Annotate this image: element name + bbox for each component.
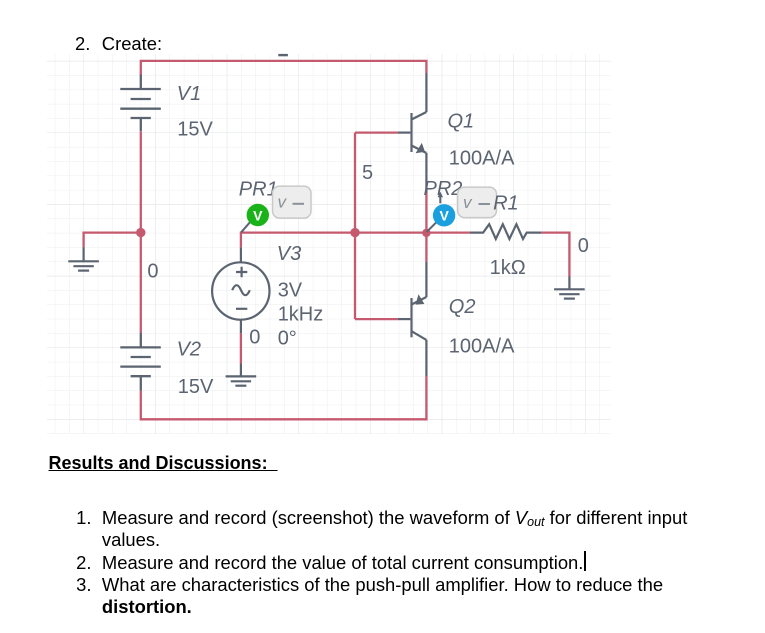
svg-text:V: V (440, 207, 450, 223)
junction node 5 on mid rail (350, 228, 359, 237)
battery V2 (120, 333, 161, 391)
wire: left ground stub (84, 233, 141, 248)
svg-text:Q2: Q2 (449, 296, 476, 318)
junction node at V1/V2/ground (136, 228, 145, 237)
transistor Q1 (398, 73, 427, 193)
wire: node to R1 left (426, 231, 470, 233)
battery V1 (120, 75, 161, 132)
list item 1 (76, 509, 91, 527)
resistor R1 (470, 224, 541, 239)
text cursor (584, 551, 585, 571)
svg-text:5: 5 (362, 162, 373, 184)
svg-text:R1: R1 (493, 192, 519, 214)
svg-text:0: 0 (578, 235, 589, 257)
ground (V3, node 0) (226, 364, 257, 386)
wire: top rail V1 to Q1 collector (141, 61, 427, 76)
minus dash annotation above top rail (278, 54, 288, 56)
Q1 emitter arrow (416, 143, 425, 153)
junction output node (422, 229, 430, 237)
svg-text:V3: V3 (277, 243, 301, 265)
wire: V1 bottom to junction to V2 top (140, 131, 142, 333)
svg-text:0: 0 (249, 326, 260, 348)
wire: Q2 collector down to bottom rail (141, 376, 427, 419)
svg-text:3V: 3V (278, 280, 303, 302)
svg-text:Q1: Q1 (448, 111, 475, 133)
svg-text:V1: V1 (177, 83, 201, 105)
svg-text:1kΩ: 1kΩ (490, 257, 526, 279)
heading "2. Create:" (75, 35, 90, 53)
ground (R1, node 0) (554, 277, 585, 299)
svg-text:15V: 15V (177, 119, 213, 141)
list item 3 (76, 576, 91, 594)
svg-text:0: 0 (147, 261, 158, 283)
wire: V3 bottom to ground (240, 333, 242, 363)
schematic grid background (47, 54, 611, 434)
Q2 emitter arrow (416, 294, 425, 304)
transistor Q2 (398, 262, 427, 376)
wire: Q2 base stub (355, 318, 398, 320)
wire: bases vertical rail node 5 (354, 133, 356, 320)
svg-text:15V: 15V (178, 376, 214, 398)
svg-text:100A/A: 100A/A (449, 335, 515, 357)
svg-text:V2: V2 (177, 338, 201, 360)
svg-text:100A/A: 100A/A (449, 148, 515, 170)
probe PR2 direction arrow (439, 196, 441, 204)
wire: mid rail V3 top to output node (241, 233, 427, 248)
ac source V3 (212, 247, 269, 333)
svg-text:PR2: PR2 (424, 178, 463, 200)
svg-text:0°: 0° (278, 327, 297, 349)
svg-text:V: V (253, 208, 263, 224)
wire: node to Q2 emitter (425, 233, 427, 262)
ground (left, node 0) (68, 247, 99, 271)
wire: Q1 emitter to node (425, 193, 427, 233)
svg-text:1kHz: 1kHz (278, 304, 324, 326)
wire: Q1 base stub (355, 131, 398, 133)
wire: R1 right to ground (541, 233, 569, 277)
section heading (49, 454, 278, 472)
list item 2 (76, 554, 91, 572)
